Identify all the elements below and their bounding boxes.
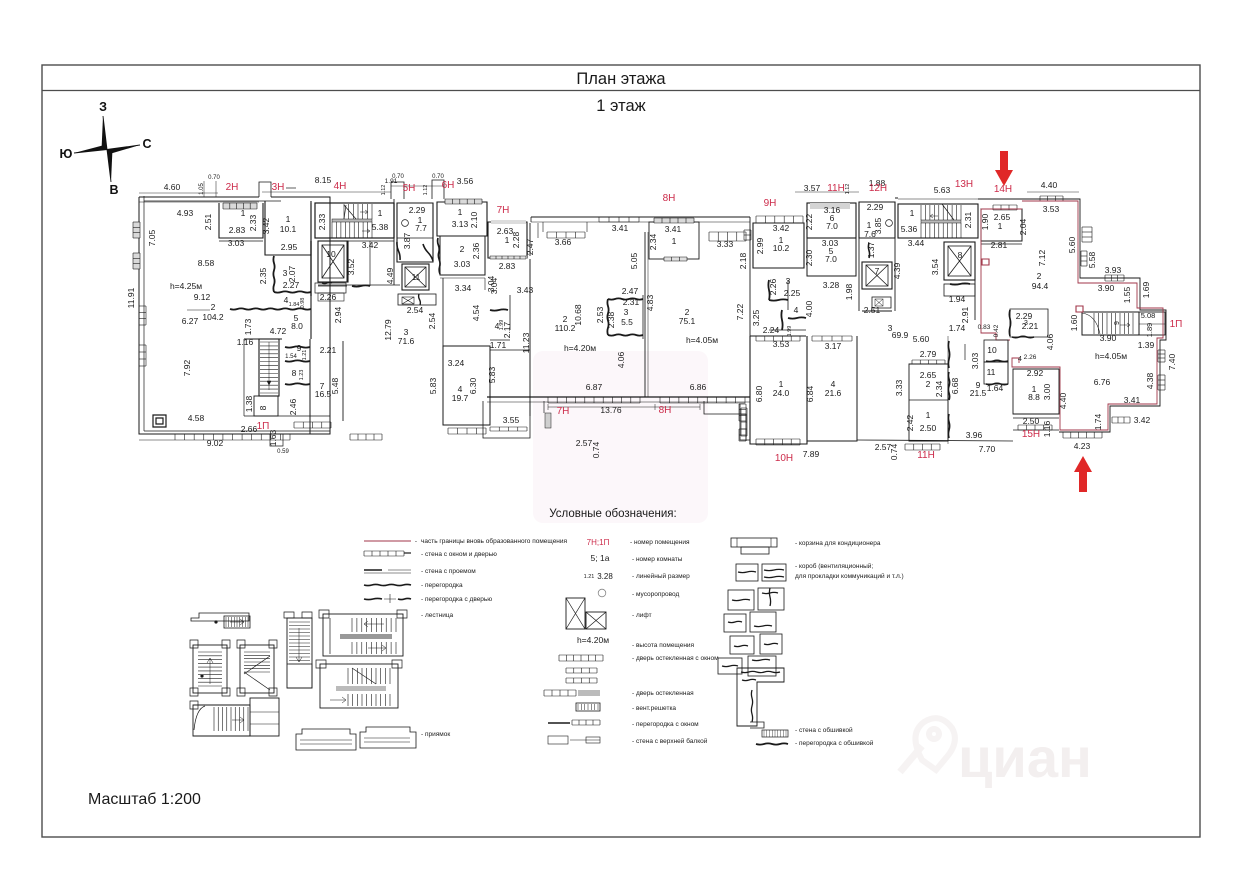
interior wall x330	[310, 203, 312, 339]
svg-text:3.42: 3.42	[261, 217, 271, 234]
svg-text:3.33: 3.33	[894, 379, 904, 396]
svg-text:7: 7	[875, 266, 880, 276]
svg-text:2.94: 2.94	[333, 306, 343, 323]
svg-text:План этажа: План этажа	[576, 70, 666, 88]
floor plan main band	[126, 175, 708, 523]
svg-text:9: 9	[1114, 321, 1121, 325]
central wall between halls	[644, 232, 646, 397]
svg-text:2.34: 2.34	[934, 380, 944, 397]
room 14H box	[981, 209, 1022, 241]
svg-text:2.99: 2.99	[755, 237, 765, 254]
svg-text:7.0: 7.0	[825, 254, 837, 264]
svg-text:2.25: 2.25	[784, 288, 801, 298]
hall top windows left	[547, 232, 585, 238]
svg-text:3.52: 3.52	[346, 258, 356, 275]
svg-text:- номер помещения: - номер помещения	[630, 539, 690, 546]
stair 13H hatch	[921, 205, 961, 220]
room 3 partitions	[273, 256, 274, 292]
svg-text:8Н: 8Н	[663, 193, 676, 204]
fragment E wide stair	[323, 614, 403, 656]
svg-text:0.59: 0.59	[277, 449, 289, 455]
svg-text:- перегородка с обшивкой: - перегородка с обшивкой	[795, 739, 874, 747]
legend wall with window and door symbol	[364, 551, 404, 556]
svg-text:5.08: 5.08	[1141, 311, 1156, 320]
svg-text:7Н;1П: 7Н;1П	[587, 538, 610, 547]
svg-text:11: 11	[412, 272, 421, 282]
svg-text:0.98: 0.98	[300, 298, 306, 309]
top wall 12H-14H	[895, 197, 898, 199]
right zone windows	[1040, 196, 1063, 201]
svg-text:2: 2	[1037, 271, 1042, 281]
legend sample fragment big	[737, 668, 784, 726]
svg-text:3.57: 3.57	[804, 183, 821, 193]
svg-text:1: 1	[910, 208, 915, 218]
svg-text:- перегородка с окном: - перегородка с окном	[632, 721, 699, 728]
svg-text:8.0: 8.0	[291, 321, 303, 331]
svg-text:10: 10	[987, 345, 997, 355]
svg-text:- высота помещения: - высота помещения	[632, 642, 695, 649]
svg-text:1.21: 1.21	[584, 574, 595, 580]
svg-text:4.00: 4.00	[804, 300, 814, 317]
svg-text:11Н: 11Н	[827, 183, 845, 194]
svg-text:8.58: 8.58	[198, 258, 215, 268]
room 1P outer walls	[139, 197, 330, 434]
svg-text:- приямок: - приямок	[421, 731, 450, 738]
svg-text:3.53: 3.53	[773, 339, 790, 349]
bottom window bays	[175, 434, 290, 440]
svg-text:2.79: 2.79	[920, 349, 937, 359]
svg-text:9.02: 9.02	[207, 438, 224, 448]
room 9H box	[753, 223, 804, 268]
svg-text:часть границы вновь образованн: часть границы вновь образованного помеще…	[421, 537, 568, 545]
svg-text:7.89: 7.89	[803, 449, 820, 459]
svg-text:3.42: 3.42	[1134, 415, 1151, 425]
hall bottom windows	[548, 397, 640, 403]
svg-text:h=4.20м: h=4.20м	[577, 635, 609, 645]
svg-text:5.83: 5.83	[487, 366, 497, 383]
svg-text:для прокладки коммуникаций и т: для прокладки коммуникаций и т.л.)	[795, 572, 904, 580]
svg-text:0.83: 0.83	[978, 324, 991, 331]
svg-text:3.66: 3.66	[555, 237, 572, 247]
svg-text:3.03: 3.03	[970, 352, 980, 369]
svg-text:3.41: 3.41	[665, 224, 682, 234]
svg-text:- дверь остекленная с окном: - дверь остекленная с окном	[632, 655, 719, 662]
svg-text:1.90: 1.90	[980, 213, 990, 230]
partitions small 7H left	[509, 295, 511, 330]
partition cluster 3-2.25-4	[768, 280, 769, 300]
svg-text:10.2: 10.2	[773, 243, 790, 253]
svg-text:8Н: 8Н	[659, 405, 672, 416]
svg-text:1.71: 1.71	[490, 340, 507, 350]
walls around elevator 10 corridor	[393, 199, 395, 285]
legend vent duct symbol	[736, 564, 758, 581]
svg-text:3.41: 3.41	[1124, 395, 1141, 405]
svg-text:3.43: 3.43	[517, 285, 534, 295]
svg-text:1.12: 1.12	[381, 185, 387, 196]
svg-text:2.53: 2.53	[595, 306, 605, 323]
svg-text:2: 2	[460, 244, 465, 254]
svg-text:2.50: 2.50	[1023, 416, 1040, 426]
svg-text:3.25: 3.25	[751, 309, 761, 326]
svg-text:- стена с окном и дверью: - стена с окном и дверью	[421, 551, 497, 558]
svg-text:2.33: 2.33	[248, 214, 258, 231]
room 2 below 6H	[440, 236, 485, 275]
svg-text:7.92: 7.92	[182, 359, 192, 376]
svg-text:3.87: 3.87	[402, 232, 412, 249]
svg-text:3.04: 3.04	[486, 275, 496, 292]
bottom 15H walls	[1013, 429, 1059, 431]
svg-text:10.1: 10.1	[280, 224, 297, 234]
red corner mark 2	[1076, 306, 1083, 312]
svg-text:4.83: 4.83	[645, 294, 655, 311]
small cell below	[315, 283, 346, 293]
svg-text:75.1: 75.1	[679, 316, 696, 326]
fragment F wide stair	[320, 664, 398, 708]
stair 1P right box	[1082, 312, 1139, 335]
legend sample fragments column	[728, 590, 754, 610]
svg-text:1.54: 1.54	[285, 354, 297, 360]
svg-text:2.91: 2.91	[960, 306, 970, 323]
svg-text:3: 3	[1024, 320, 1028, 327]
svg-text:8: 8	[292, 368, 297, 378]
svg-text:h=4.05м: h=4.05м	[686, 335, 718, 345]
svg-text:1.94: 1.94	[949, 294, 966, 304]
svg-text:- номер комнаты: - номер комнаты	[632, 556, 683, 563]
svg-text:- стена с верхней балкой: - стена с верхней балкой	[632, 737, 708, 745]
svg-text:8: 8	[258, 405, 268, 410]
legend wall with sheathing symbol	[762, 730, 788, 737]
svg-text:2.26: 2.26	[768, 278, 778, 295]
svg-text:2.46: 2.46	[288, 398, 298, 415]
svg-text:10.68: 10.68	[573, 304, 583, 326]
svg-text:3: 3	[786, 276, 791, 286]
room 8 below stair	[254, 396, 278, 416]
svg-text:С: С	[142, 137, 151, 151]
svg-text:1.38: 1.38	[244, 395, 254, 412]
svg-text:5.36: 5.36	[901, 224, 918, 234]
svg-text:2.18: 2.18	[738, 252, 748, 269]
svg-text:Условные обозначения:: Условные обозначения:	[549, 508, 676, 520]
top dimension chain lines	[139, 192, 218, 194]
svg-text:4Н: 4Н	[334, 181, 347, 192]
room 12H box	[859, 202, 895, 238]
svg-text:10Н: 10Н	[775, 453, 793, 464]
svg-text:7.40: 7.40	[1167, 353, 1177, 370]
svg-text:3.93: 3.93	[1105, 265, 1122, 275]
svg-text:1: 1	[458, 207, 463, 217]
svg-text:1.63: 1.63	[268, 429, 278, 446]
legend glazed door symbol	[544, 690, 576, 696]
svg-text:13.76: 13.76	[600, 405, 622, 415]
svg-text:1: 1	[672, 236, 677, 246]
svg-text:7.0: 7.0	[826, 221, 838, 231]
svg-text:1 этаж: 1 этаж	[596, 97, 645, 115]
svg-text:6Н: 6Н	[442, 180, 455, 191]
svg-text:2.21: 2.21	[320, 345, 337, 355]
room 4-21.6 block	[807, 336, 857, 441]
svg-text:4.23: 4.23	[1074, 441, 1091, 451]
svg-text:7.22: 7.22	[735, 303, 745, 320]
cells below elevator 8	[944, 284, 975, 296]
garbage chute circle 12H	[886, 220, 893, 227]
svg-text:5Н: 5Н	[403, 183, 416, 194]
room 1-8.8 box	[1013, 369, 1059, 414]
svg-text:2.83: 2.83	[229, 225, 246, 235]
svg-text:0.70: 0.70	[392, 174, 404, 180]
rooms 11H boxes	[807, 203, 856, 238]
svg-text:3.56: 3.56	[457, 176, 474, 186]
svg-text:0.74: 0.74	[591, 441, 601, 458]
svg-text:3.24: 3.24	[448, 358, 465, 368]
svg-text:- стена с обшивкой: - стена с обшивкой	[795, 726, 853, 734]
stair 4H arrows	[362, 229, 370, 233]
svg-text:2.83: 2.83	[499, 261, 516, 271]
svg-text:7Н: 7Н	[497, 205, 510, 216]
svg-text:3.41: 3.41	[612, 223, 629, 233]
svg-text:21.6: 21.6	[825, 388, 842, 398]
svg-text:5.63: 5.63	[934, 185, 951, 195]
svg-text:2.26: 2.26	[320, 292, 337, 302]
svg-text:6.68: 6.68	[950, 377, 960, 394]
svg-text:2.38: 2.38	[606, 311, 616, 328]
svg-text:1: 1	[926, 410, 931, 420]
svg-text:4.93: 4.93	[177, 208, 194, 218]
svg-text:1.39: 1.39	[1138, 340, 1155, 350]
room 10H block	[750, 336, 807, 444]
svg-text:3.28: 3.28	[597, 572, 613, 581]
svg-text:0.74: 0.74	[889, 443, 899, 460]
svg-text:3.42: 3.42	[773, 223, 790, 233]
svg-text:4.39: 4.39	[892, 262, 902, 279]
svg-text:- стена с проемом: - стена с проемом	[421, 568, 476, 575]
stair 4H door wedge	[344, 205, 356, 219]
right zone outer wall black	[1027, 199, 1166, 432]
svg-text:2.31: 2.31	[963, 211, 973, 228]
bottom recess pillar	[545, 413, 551, 428]
svg-text:24.0: 24.0	[773, 388, 790, 398]
svg-text:1.98: 1.98	[844, 283, 854, 300]
svg-text:6.86: 6.86	[690, 382, 707, 392]
svg-text:7.12: 7.12	[1037, 249, 1047, 266]
rooms 11H bottom block	[909, 364, 948, 441]
svg-text:3.55: 3.55	[503, 415, 520, 425]
legend aircon basket symbol	[731, 538, 777, 547]
svg-text:7.7: 7.7	[415, 223, 427, 233]
svg-text:8.15: 8.15	[315, 175, 332, 185]
svg-text:3.44: 3.44	[908, 238, 925, 248]
red arrow top	[995, 151, 1013, 186]
legend wall with opening symbol	[364, 569, 382, 571]
svg-text:2.95: 2.95	[281, 242, 298, 252]
svg-text:11: 11	[987, 367, 996, 377]
svg-text:4.49: 4.49	[385, 267, 395, 284]
svg-text:5.58: 5.58	[1087, 251, 1097, 268]
stair 4H landing bar	[332, 219, 372, 222]
bottom left terrace 7H	[483, 401, 530, 438]
svg-text:71.6: 71.6	[398, 336, 415, 346]
svg-text:1: 1	[998, 221, 1003, 231]
svg-text:2.33: 2.33	[317, 213, 327, 230]
fragment B stair	[193, 645, 227, 693]
svg-text:5.38: 5.38	[372, 222, 389, 232]
svg-text:7.05: 7.05	[147, 229, 157, 246]
svg-text:2.35: 2.35	[258, 267, 268, 284]
corridor 6.68 walls	[948, 341, 949, 368]
wall right of room 4	[529, 259, 531, 416]
elevator 10	[318, 241, 348, 282]
fragment C stair	[240, 645, 274, 693]
svg-text:В: В	[109, 183, 118, 197]
svg-text:h=4.20м: h=4.20м	[564, 343, 596, 353]
svg-text:- перегородка с дверью: - перегородка с дверью	[421, 596, 492, 603]
svg-text:15Н: 15Н	[1022, 429, 1040, 440]
svg-text:2.22: 2.22	[804, 213, 814, 230]
svg-text:- дверь остекленная: - дверь остекленная	[632, 690, 694, 697]
hall 69.9 boundary	[750, 335, 806, 337]
watermark pink box	[533, 351, 708, 523]
svg-text:1.84: 1.84	[289, 302, 300, 308]
svg-text:2.26: 2.26	[1024, 354, 1037, 361]
svg-text:3.33: 3.33	[717, 239, 734, 249]
red arrow bottom	[1074, 456, 1092, 492]
svg-text:2.54: 2.54	[427, 312, 437, 329]
vent box below 11	[398, 294, 436, 305]
svg-text:3.53: 3.53	[1043, 204, 1060, 214]
svg-text:1.64: 1.64	[987, 383, 1004, 393]
room 6H box	[437, 202, 487, 236]
svg-text:14Н: 14Н	[994, 184, 1012, 195]
svg-text:2Н: 2Н	[226, 182, 239, 193]
svg-text:2.54: 2.54	[407, 305, 424, 315]
red boundary line	[981, 209, 1022, 340]
stair 13H landing bar	[921, 220, 961, 223]
stair right sub box	[1139, 312, 1165, 335]
svg-text:1.12: 1.12	[845, 184, 851, 195]
svg-text:13Н: 13Н	[955, 179, 973, 190]
hall bottom wall	[487, 396, 750, 398]
svg-text:6.76: 6.76	[1094, 377, 1111, 387]
svg-text:5.48: 5.48	[330, 377, 340, 394]
svg-text:2.10: 2.10	[469, 211, 479, 228]
hall top windows right	[709, 232, 746, 241]
svg-text:- мусоропровод: - мусоропровод	[632, 591, 679, 598]
svg-text:5.60: 5.60	[913, 334, 930, 344]
walls between 4H-5H-6H	[393, 203, 395, 238]
svg-text:Ю: Ю	[60, 147, 73, 161]
svg-text:3.34: 3.34	[455, 283, 472, 293]
svg-text:6.27: 6.27	[182, 316, 199, 326]
svg-text:5; 1а: 5; 1а	[591, 553, 610, 563]
room 1-3.41 box 8H	[649, 222, 699, 259]
svg-text:11Н: 11Н	[917, 450, 935, 461]
svg-text:1.21: 1.21	[302, 350, 308, 361]
svg-text:5.83: 5.83	[428, 377, 438, 394]
walls 12H shaft	[858, 238, 860, 311]
svg-text:1.16: 1.16	[237, 337, 254, 347]
stair 13H diagonal	[942, 204, 954, 220]
svg-text:3.54: 3.54	[930, 258, 940, 275]
svg-text:4.06: 4.06	[1045, 333, 1055, 350]
svg-text:2.36: 2.36	[471, 242, 481, 259]
room 4-19.7 box	[443, 346, 490, 425]
room 5H box	[397, 203, 433, 262]
svg-text:2.29: 2.29	[867, 202, 884, 212]
svg-text:4.06: 4.06	[616, 351, 626, 368]
vent below elevator 7	[872, 297, 891, 308]
svg-text:2.31: 2.31	[623, 297, 640, 307]
svg-text:1.23: 1.23	[299, 370, 305, 381]
svg-text:3.13: 3.13	[452, 219, 469, 229]
svg-text:4.54: 4.54	[471, 304, 481, 321]
svg-text:5.60: 5.60	[1067, 236, 1077, 253]
svg-text:21.5: 21.5	[970, 388, 987, 398]
svg-text:4: 4	[1018, 356, 1022, 363]
svg-text:5.05: 5.05	[629, 252, 639, 269]
red corner mark 1	[982, 259, 989, 265]
svg-text:2.47: 2.47	[622, 286, 639, 296]
svg-text:9Н: 9Н	[764, 198, 777, 209]
svg-text:6.30: 6.30	[468, 377, 478, 394]
stair 4H upper flight hatch	[344, 204, 372, 219]
svg-text:2.81: 2.81	[991, 240, 1008, 250]
cian watermark pin	[915, 718, 954, 770]
svg-text:0.70: 0.70	[208, 175, 220, 181]
left bay of 10H	[740, 404, 750, 440]
svg-text:1.89: 1.89	[1145, 323, 1154, 338]
svg-text:3.85: 3.85	[873, 217, 883, 234]
wall between 8H hall and 9H section	[749, 217, 751, 336]
svg-text:1.74: 1.74	[1093, 413, 1103, 430]
svg-text:4.40: 4.40	[1058, 392, 1068, 409]
svg-text:2: 2	[211, 302, 216, 312]
svg-text:19.7: 19.7	[452, 393, 469, 403]
svg-text:11.23: 11.23	[521, 332, 531, 353]
svg-text:2: 2	[926, 379, 931, 389]
room 9H window band	[756, 216, 803, 223]
svg-text:3.03: 3.03	[454, 259, 471, 269]
rooms 4-5-9-8 partitions	[230, 308, 311, 309]
svg-text:1.16: 1.16	[1042, 420, 1052, 437]
right step down to 10H	[704, 401, 746, 441]
svg-text:3.90: 3.90	[1098, 283, 1115, 293]
svg-text:9.12: 9.12	[194, 292, 211, 302]
svg-text:- короб (вентиляционный;: - короб (вентиляционный;	[795, 562, 873, 570]
legend partition with sheathing symbol	[756, 743, 788, 744]
svg-text:2.51: 2.51	[864, 305, 881, 315]
svg-text:1.73: 1.73	[243, 318, 253, 335]
elevator 11	[402, 264, 429, 290]
svg-text:- вент.решетка: - вент.решетка	[632, 705, 676, 712]
legend partition with door symbol	[364, 598, 382, 599]
fragment H pit bar	[360, 727, 416, 748]
bottom-left pit corner	[153, 415, 166, 427]
garbage chute circle 5H	[402, 220, 409, 227]
svg-text:2.51: 2.51	[203, 213, 213, 230]
stair 1P shaft	[259, 339, 279, 396]
svg-text:7.70: 7.70	[979, 444, 996, 454]
svg-text:104.2: 104.2	[202, 312, 224, 322]
svg-text:2.24: 2.24	[763, 325, 780, 335]
compass rose	[60, 100, 152, 197]
rooms 10-11 small right	[984, 340, 1008, 362]
svg-text:2.34: 2.34	[648, 233, 658, 250]
svg-text:-: -	[415, 538, 417, 545]
svg-text:1П: 1П	[1170, 319, 1183, 330]
svg-text:1П: 1П	[257, 421, 270, 432]
svg-text:1.12: 1.12	[423, 185, 429, 196]
svg-text:1.60: 1.60	[1069, 314, 1079, 331]
stair 13H box	[898, 204, 978, 238]
